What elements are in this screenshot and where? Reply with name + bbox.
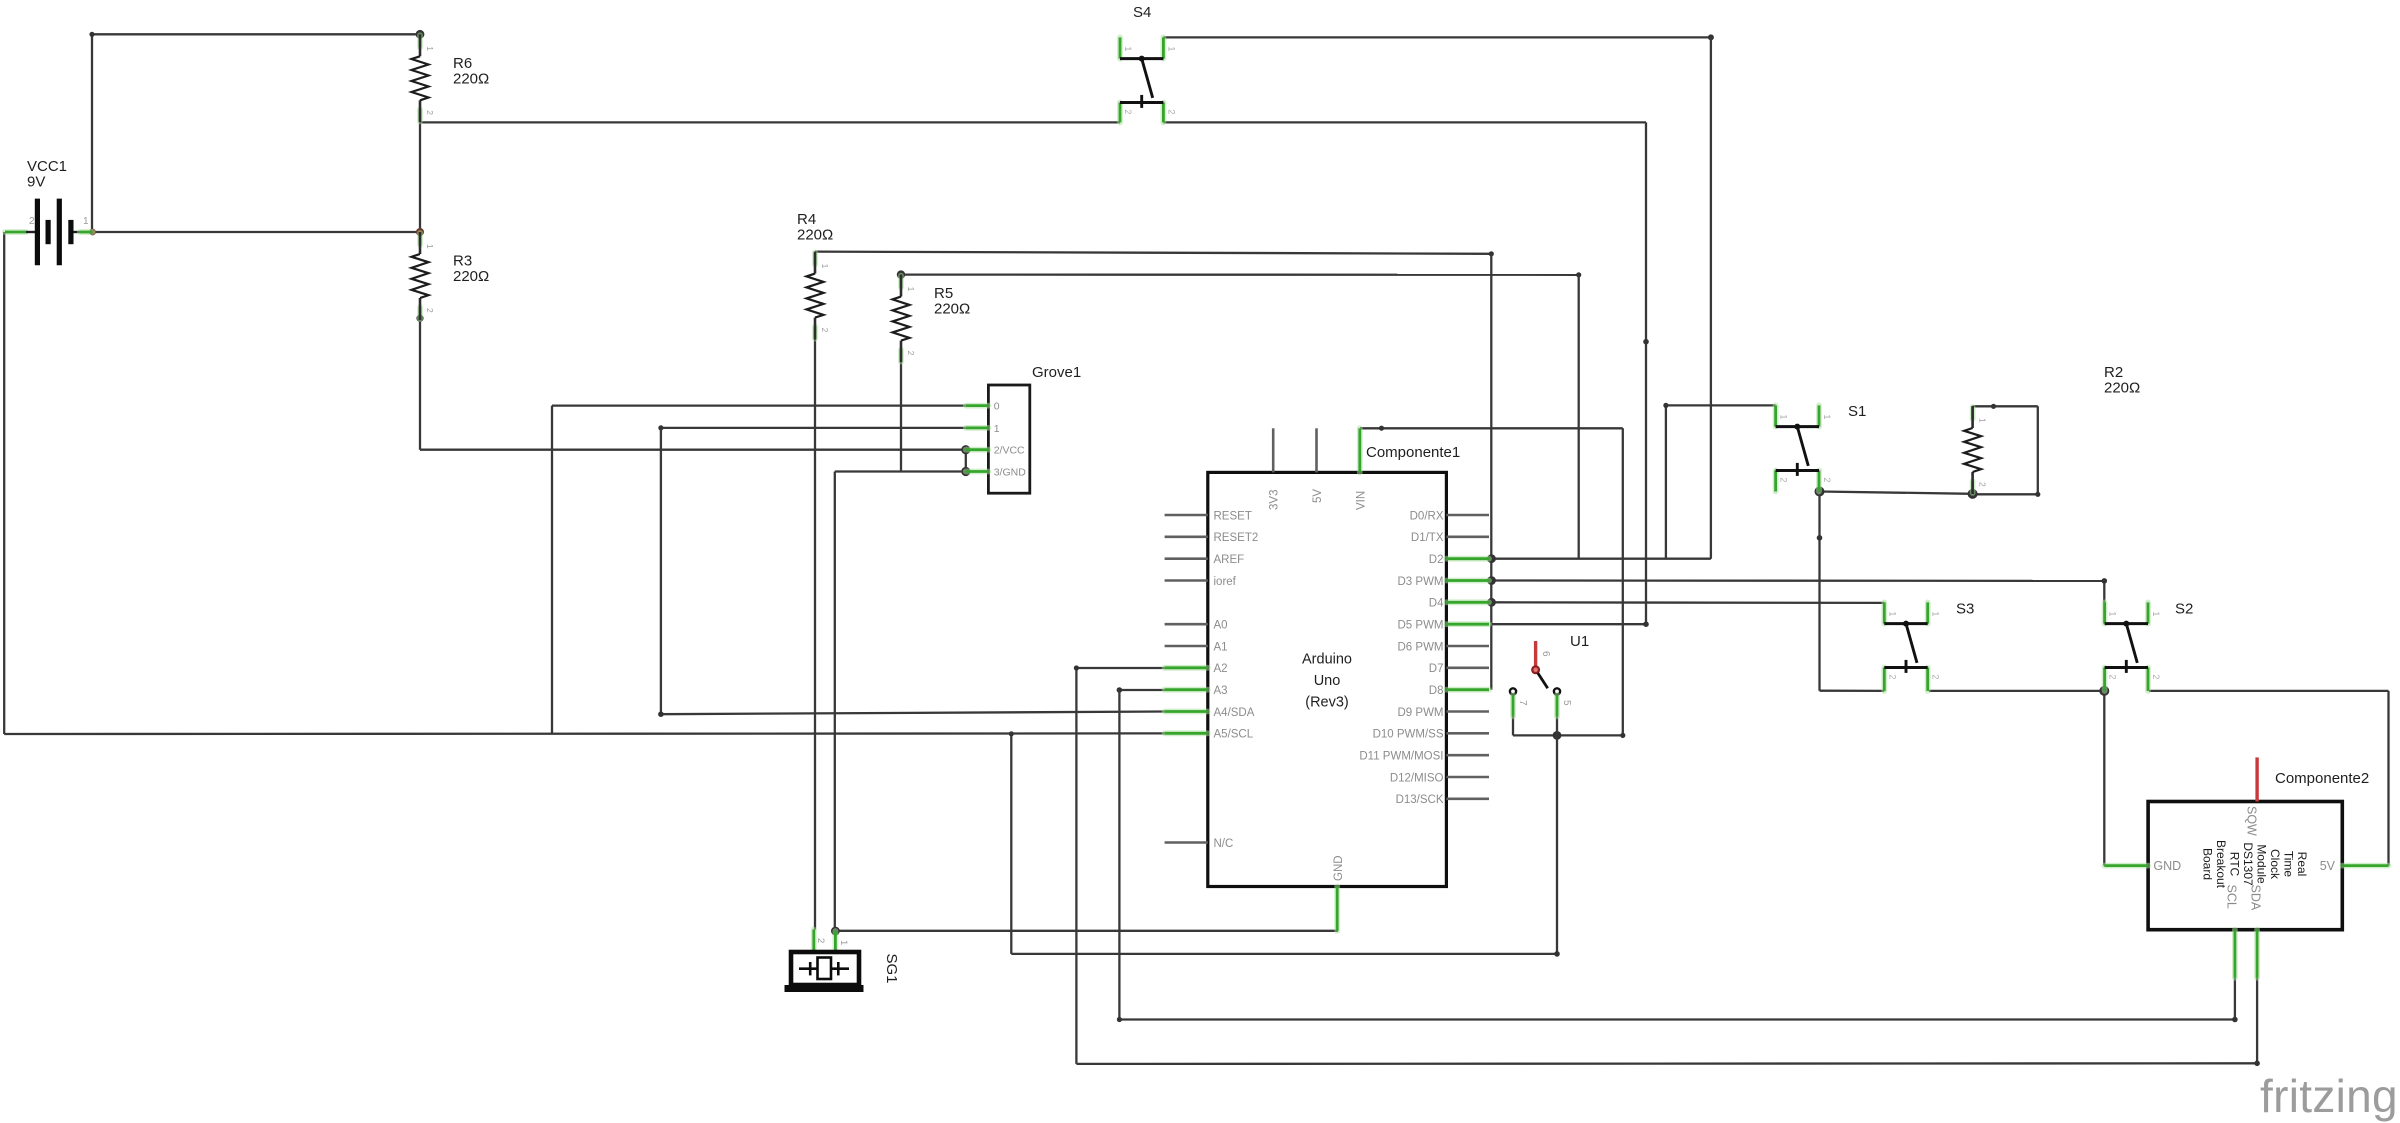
svg-text:1: 1 bbox=[1931, 611, 1941, 616]
svg-text:1: 1 bbox=[1887, 611, 1897, 616]
IC Componente2 RTC DS1307 bbox=[2104, 757, 2388, 977]
svg-text:A3: A3 bbox=[1214, 685, 1228, 697]
svg-text:Clock: Clock bbox=[2268, 849, 2282, 880]
svg-text:1: 1 bbox=[820, 264, 830, 269]
wire D4 net bbox=[1492, 601, 1885, 604]
wire bbox=[92, 33, 420, 35]
svg-text:2: 2 bbox=[425, 308, 435, 313]
wire D3 net bbox=[1492, 579, 2105, 582]
node wire-join bbox=[1817, 535, 1823, 541]
node D3 junction bbox=[1487, 576, 1496, 585]
node wire-join bbox=[1708, 34, 1714, 40]
label Grove1 bbox=[1032, 364, 1081, 381]
svg-text:A5/SCL: A5/SCL bbox=[1214, 729, 1254, 741]
svg-text:Uno: Uno bbox=[1314, 673, 1341, 689]
svg-text:2: 2 bbox=[906, 351, 916, 356]
svg-text:R4: R4 bbox=[797, 211, 816, 228]
wire SCL bottom net bbox=[1119, 1018, 2234, 1020]
svg-text:S2: S2 bbox=[2175, 601, 2193, 618]
label U1 bbox=[1570, 633, 1589, 650]
svg-text:(Rev3): (Rev3) bbox=[1305, 695, 1349, 711]
svg-text:Componente2: Componente2 bbox=[2275, 770, 2369, 787]
wire battery+ to R3 bbox=[92, 231, 420, 233]
svg-text:9V: 9V bbox=[27, 174, 45, 191]
wire S1.2 to R2 bbox=[1820, 492, 1973, 494]
resistor R6 bbox=[412, 34, 436, 122]
svg-text:RESET: RESET bbox=[1214, 510, 1252, 522]
svg-text:220Ω: 220Ω bbox=[453, 268, 489, 285]
svg-text:RTC: RTC bbox=[2228, 852, 2242, 877]
node R2.2 junction bbox=[1968, 489, 1978, 499]
node wire-join bbox=[2232, 1017, 2238, 1023]
wire bbox=[2387, 691, 2389, 866]
battery VCC1 bbox=[5, 199, 93, 266]
wire bbox=[2256, 978, 2258, 1064]
label R5 bbox=[934, 285, 970, 318]
IC U-Arduino Componente1 bbox=[1165, 428, 1489, 931]
wire bbox=[1665, 405, 1667, 558]
svg-text:SCL: SCL bbox=[2225, 885, 2239, 909]
node S1.2 junction bbox=[1815, 487, 1825, 497]
svg-text:Board: Board bbox=[2201, 848, 2215, 880]
svg-text:D6 PWM: D6 PWM bbox=[1398, 641, 1444, 653]
wire bbox=[660, 428, 662, 714]
node battery pin1 junction bbox=[89, 229, 96, 236]
svg-text:5V: 5V bbox=[1312, 489, 1324, 503]
svg-text:2: 2 bbox=[1931, 674, 1941, 679]
wire R4.1 right bbox=[815, 252, 1491, 254]
svg-text:DS1307: DS1307 bbox=[2241, 842, 2255, 886]
node wire-join bbox=[1991, 404, 1996, 409]
wire D5 net bbox=[1492, 623, 1647, 625]
svg-text:D10 PWM/SS: D10 PWM/SS bbox=[1373, 729, 1444, 741]
resistor R3 bbox=[412, 232, 436, 320]
svg-text:1: 1 bbox=[2151, 611, 2161, 616]
svg-text:2: 2 bbox=[1978, 482, 1988, 487]
node wire-join bbox=[1576, 272, 1581, 277]
svg-text:fritzing: fritzing bbox=[2260, 1070, 2398, 1122]
wire R2 loop bottom bbox=[1973, 493, 2038, 495]
node wire-join bbox=[1620, 733, 1625, 738]
node R5.1 junction bbox=[897, 270, 905, 278]
wire bbox=[1820, 690, 1885, 693]
svg-text:D7: D7 bbox=[1429, 663, 1444, 675]
resistor R5 bbox=[893, 275, 917, 363]
svg-text:A0: A0 bbox=[1214, 620, 1228, 632]
label R6 bbox=[453, 55, 489, 88]
svg-text:1: 1 bbox=[425, 46, 435, 51]
label VCC1 bbox=[27, 158, 67, 191]
switch S2 bbox=[2105, 602, 2161, 691]
svg-text:R5: R5 bbox=[934, 285, 953, 302]
svg-text:SDA: SDA bbox=[2249, 885, 2263, 911]
svg-text:D12/MISO: D12/MISO bbox=[1390, 772, 1444, 784]
svg-text:1: 1 bbox=[425, 244, 435, 249]
wire A3 net bbox=[1119, 689, 1164, 691]
wire bbox=[1163, 36, 1711, 38]
label Arduino Uno Rev3 bbox=[1302, 652, 1352, 711]
svg-text:2: 2 bbox=[1123, 109, 1133, 114]
svg-text:D1/TX: D1/TX bbox=[1411, 532, 1444, 544]
svg-text:Grove1: Grove1 bbox=[1032, 364, 1081, 381]
svg-text:D13/SCK: D13/SCK bbox=[1396, 794, 1444, 806]
wire bbox=[420, 449, 966, 451]
wire bbox=[814, 340, 816, 930]
wire R5.1 right bbox=[901, 273, 1579, 275]
switch U1 bbox=[1510, 641, 1572, 716]
wire bbox=[835, 470, 966, 472]
node wire-join bbox=[658, 425, 663, 430]
node wire-join bbox=[2102, 578, 2108, 584]
svg-text:2: 2 bbox=[29, 216, 35, 227]
wire bbox=[89, 32, 94, 37]
wire bbox=[1490, 254, 1492, 690]
svg-text:U1: U1 bbox=[1570, 633, 1589, 650]
svg-text:1: 1 bbox=[1779, 414, 1789, 419]
wire bbox=[1163, 121, 1646, 123]
wire VIN net bbox=[1360, 427, 1623, 429]
node SG1 pin1 junction bbox=[831, 927, 840, 936]
wire bbox=[965, 450, 967, 472]
svg-text:Arduino: Arduino bbox=[1302, 652, 1352, 668]
svg-text:D2: D2 bbox=[1429, 554, 1444, 566]
label S2 bbox=[2175, 601, 2193, 618]
svg-text:0: 0 bbox=[994, 401, 1000, 413]
node wire-join bbox=[1117, 687, 1123, 693]
wire bbox=[900, 363, 902, 472]
node wire-join bbox=[1643, 621, 1649, 627]
svg-text:1: 1 bbox=[1978, 418, 1988, 423]
svg-text:1: 1 bbox=[838, 940, 849, 945]
wire bbox=[1645, 122, 1647, 624]
svg-text:2: 2 bbox=[820, 328, 830, 333]
node wire-join bbox=[1379, 426, 1384, 431]
switch S3 bbox=[1884, 602, 1940, 691]
node wire-join bbox=[1117, 1017, 1122, 1022]
wire bbox=[551, 406, 553, 734]
wire bbox=[1075, 668, 1077, 1064]
wire bbox=[2103, 691, 2105, 866]
svg-text:GND: GND bbox=[1333, 855, 1345, 881]
node R3.2 end bbox=[416, 315, 423, 322]
svg-text:SG1: SG1 bbox=[883, 954, 900, 984]
wire R2 loop top bbox=[1973, 405, 2038, 407]
svg-text:Breakout: Breakout bbox=[2214, 840, 2228, 889]
wire Grove pin0 net bbox=[552, 404, 966, 406]
svg-text:A4/SDA: A4/SDA bbox=[1214, 707, 1255, 719]
svg-text:2: 2 bbox=[2151, 674, 2161, 679]
svg-text:ioref: ioref bbox=[1214, 576, 1237, 588]
svg-text:2: 2 bbox=[1166, 109, 1176, 114]
svg-text:5: 5 bbox=[1561, 700, 1572, 706]
svg-text:R2: R2 bbox=[2104, 364, 2123, 381]
svg-text:7: 7 bbox=[1517, 700, 1528, 706]
svg-text:Componente1: Componente1 bbox=[1366, 444, 1460, 461]
wire SG1 to GND bbox=[835, 930, 1338, 932]
label S3 bbox=[1956, 601, 1974, 618]
node wire-join bbox=[1074, 665, 1079, 670]
svg-text:N/C: N/C bbox=[1214, 838, 1234, 850]
wire bbox=[1622, 428, 1624, 735]
svg-text:3/GND: 3/GND bbox=[994, 467, 1027, 479]
svg-text:D8: D8 bbox=[1429, 685, 1444, 697]
svg-text:Time: Time bbox=[2282, 851, 2296, 878]
label Componente1 bbox=[1366, 444, 1460, 461]
node U1 junction bbox=[1553, 731, 1562, 740]
svg-text:1: 1 bbox=[994, 423, 1000, 435]
svg-text:6: 6 bbox=[1540, 651, 1551, 657]
node wire-join bbox=[1489, 251, 1494, 256]
wire A2 net bbox=[1076, 667, 1164, 669]
svg-text:S3: S3 bbox=[1956, 601, 1974, 618]
wire Grove pin1 net bbox=[661, 427, 966, 429]
connector Grove1 bbox=[966, 385, 1030, 493]
svg-text:2: 2 bbox=[1887, 674, 1897, 679]
svg-text:S4: S4 bbox=[1133, 4, 1151, 21]
svg-text:1: 1 bbox=[2108, 611, 2118, 616]
svg-text:1: 1 bbox=[83, 216, 89, 227]
wire bbox=[2234, 978, 2236, 1020]
node junction R6.1 top bbox=[416, 30, 425, 39]
switch S4 bbox=[1120, 37, 1176, 122]
svg-text:220Ω: 220Ω bbox=[453, 71, 489, 88]
label R2 bbox=[2104, 364, 2140, 397]
node wire-join bbox=[1554, 951, 1560, 957]
wire SDA bottom net bbox=[1076, 1062, 2257, 1065]
node wire-join bbox=[658, 711, 664, 717]
wire bbox=[1710, 37, 1712, 558]
wire bbox=[419, 318, 421, 449]
label SG1 bbox=[883, 954, 900, 984]
wire S2.2R to RTC 5V bbox=[2149, 690, 2389, 692]
svg-text:D5 PWM: D5 PWM bbox=[1398, 620, 1444, 632]
svg-text:VIN: VIN bbox=[1356, 491, 1368, 510]
node S2.2L junction bbox=[2099, 686, 2109, 696]
node D2 junction bbox=[1487, 554, 1496, 563]
svg-text:S1: S1 bbox=[1848, 403, 1866, 420]
svg-text:A1: A1 bbox=[1214, 641, 1228, 653]
svg-text:1: 1 bbox=[1822, 414, 1832, 419]
wire bbox=[419, 122, 421, 232]
svg-text:D3 PWM: D3 PWM bbox=[1398, 576, 1444, 588]
wire A5/SCL long net bbox=[4, 732, 1164, 735]
svg-text:A2: A2 bbox=[1214, 663, 1228, 675]
label S1 bbox=[1848, 403, 1866, 420]
svg-text:1: 1 bbox=[1166, 46, 1176, 51]
wire bbox=[1010, 734, 1012, 954]
svg-text:D11 PWM/MOSI: D11 PWM/MOSI bbox=[1359, 751, 1443, 763]
wire bbox=[834, 472, 836, 932]
node Grove 2/VCC junction bbox=[961, 445, 970, 454]
wire D2 net bbox=[1492, 558, 1711, 560]
svg-text:2: 2 bbox=[2108, 674, 2118, 679]
wire bbox=[1118, 690, 1120, 1020]
svg-text:220Ω: 220Ω bbox=[797, 227, 833, 244]
wire bbox=[1512, 716, 1514, 735]
svg-text:2: 2 bbox=[1779, 477, 1789, 482]
svg-text:D4: D4 bbox=[1429, 598, 1444, 610]
wire S3.2 to S2.2 bbox=[1929, 690, 2104, 692]
svg-text:2: 2 bbox=[1822, 477, 1832, 482]
svg-text:220Ω: 220Ω bbox=[2104, 380, 2140, 397]
label R4 bbox=[797, 211, 833, 244]
wire S1 top bbox=[1666, 404, 1776, 406]
node D4 junction bbox=[1487, 598, 1496, 607]
wire bbox=[1556, 735, 1558, 954]
svg-text:Module: Module bbox=[2255, 844, 2269, 884]
wire bbox=[1556, 716, 1558, 735]
wire bbox=[91, 34, 93, 232]
resistor R2 bbox=[1964, 406, 1988, 494]
svg-text:3V3: 3V3 bbox=[1269, 490, 1281, 510]
wire R2 loop right bbox=[2037, 406, 2039, 494]
svg-text:1: 1 bbox=[1123, 46, 1133, 51]
wire A4/SDA net bbox=[661, 712, 1165, 715]
label S4 bbox=[1133, 4, 1151, 21]
node wire-join bbox=[1009, 731, 1014, 736]
resistor R4 bbox=[807, 252, 831, 340]
svg-text:SQW: SQW bbox=[2245, 806, 2259, 836]
svg-text:Real: Real bbox=[2295, 852, 2309, 877]
label fritzing watermark bbox=[2260, 1070, 2398, 1122]
node wire-join bbox=[2035, 492, 2040, 497]
node R3.1 junction bbox=[416, 228, 424, 236]
svg-text:R6: R6 bbox=[453, 55, 472, 72]
svg-text:2: 2 bbox=[815, 938, 826, 943]
wire U1 bottom bbox=[1513, 734, 1623, 736]
svg-text:220Ω: 220Ω bbox=[934, 301, 970, 318]
node wire-join bbox=[2254, 1061, 2260, 1067]
node Grove 3/GND junction bbox=[961, 467, 970, 476]
svg-text:D9 PWM: D9 PWM bbox=[1398, 707, 1444, 719]
wire bbox=[420, 121, 1120, 123]
speaker SG1 bbox=[785, 930, 864, 993]
wire bbox=[1578, 275, 1580, 559]
node wire-join bbox=[1643, 339, 1649, 345]
svg-text:D0/RX: D0/RX bbox=[1410, 510, 1444, 522]
svg-text:RESET2: RESET2 bbox=[1214, 532, 1259, 544]
svg-text:R3: R3 bbox=[453, 253, 472, 270]
svg-text:2/VCC: 2/VCC bbox=[994, 445, 1025, 457]
svg-text:2: 2 bbox=[425, 110, 435, 115]
wire bbox=[1011, 953, 1557, 955]
label R3 bbox=[453, 253, 489, 286]
wire bbox=[3, 232, 5, 734]
label Componente2 bbox=[2275, 770, 2369, 787]
svg-text:5V: 5V bbox=[2320, 859, 2336, 873]
node wire-join bbox=[1663, 403, 1668, 408]
svg-text:GND: GND bbox=[2153, 859, 2181, 873]
svg-text:VCC1: VCC1 bbox=[27, 158, 67, 175]
svg-text:1: 1 bbox=[906, 287, 916, 292]
wire bbox=[2103, 581, 2105, 603]
switch S1 bbox=[1776, 405, 1832, 491]
wire bbox=[1818, 492, 1820, 691]
svg-text:AREF: AREF bbox=[1214, 554, 1245, 566]
